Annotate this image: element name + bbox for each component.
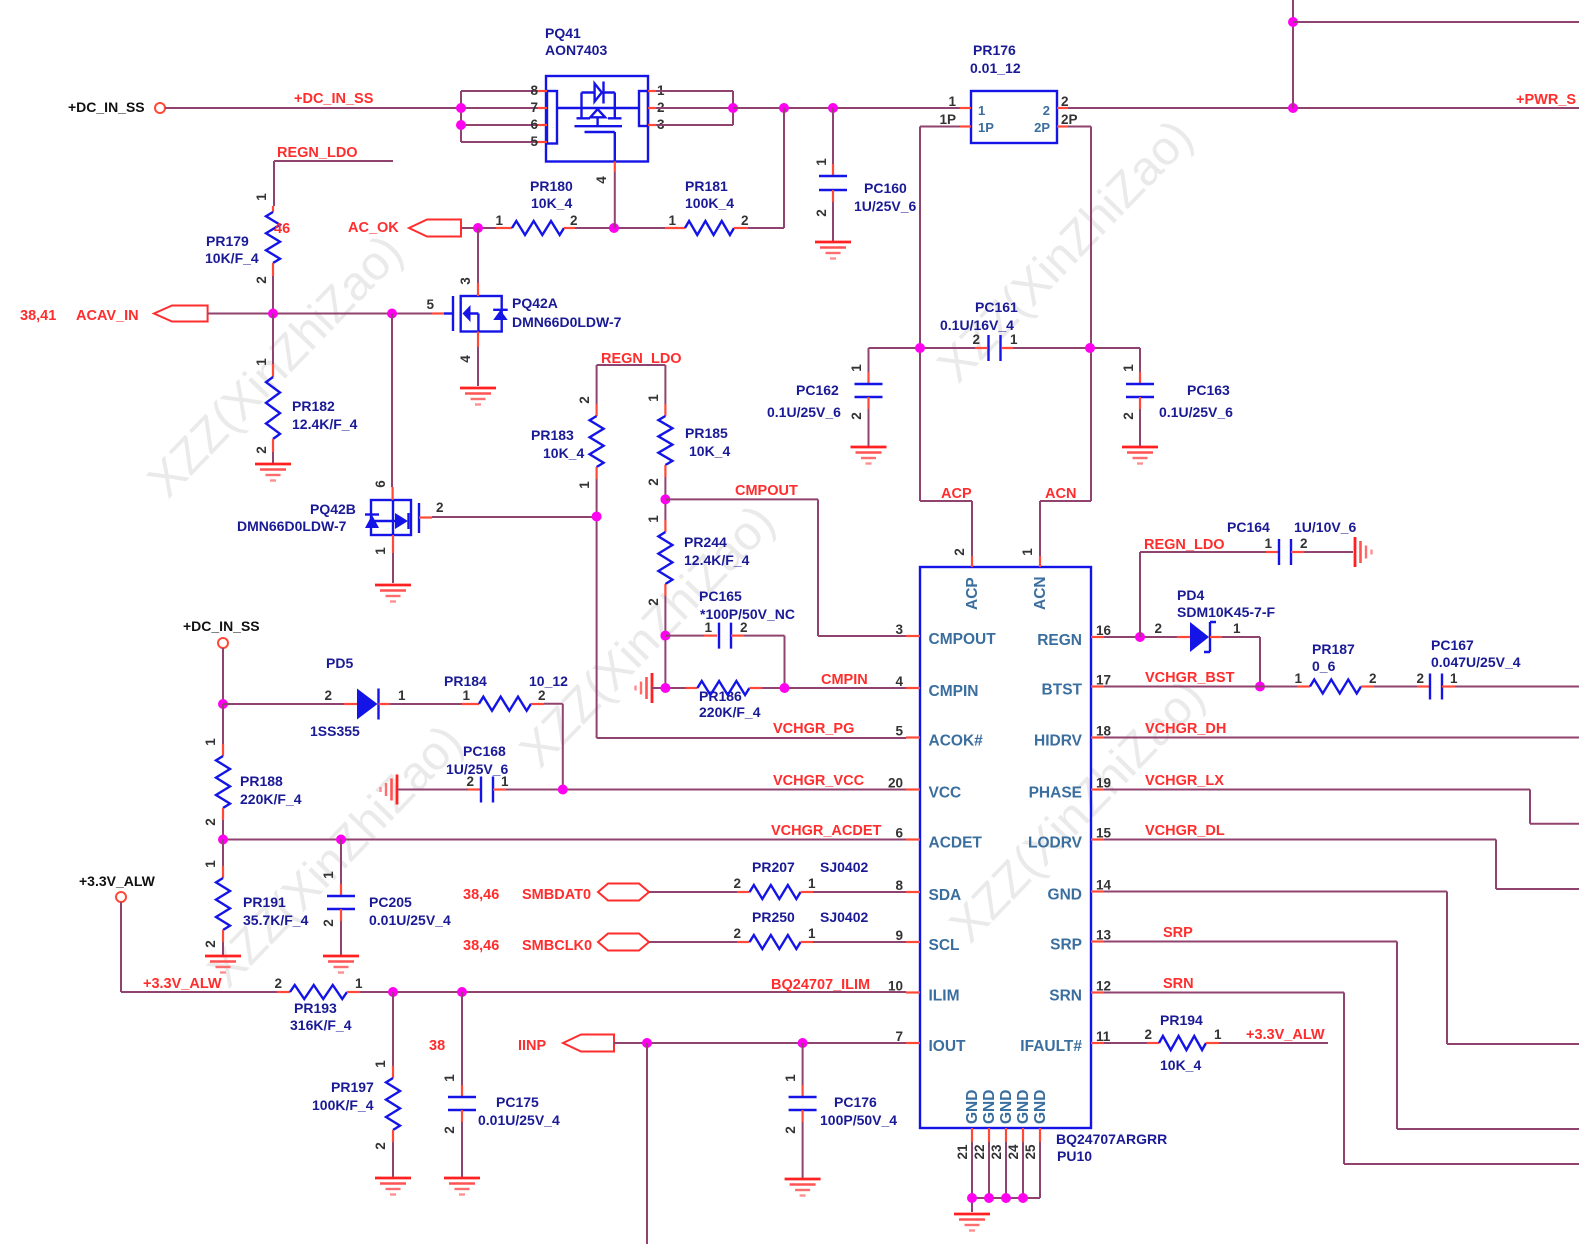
capacitor PC167 labels [1431, 637, 1521, 670]
svg-text:PR184: PR184 [444, 673, 487, 689]
wire VCHGR_DH row [1104, 721, 1579, 738]
wire DC_IN drop [222, 648, 224, 704]
junction PQ42B PR183 [592, 512, 602, 522]
junction PC165 left [660, 631, 670, 641]
wire PQ41 pin4 drop [614, 172, 616, 228]
svg-text:PR250: PR250 [752, 909, 795, 925]
svg-text:ACOK#: ACOK# [929, 733, 984, 750]
svg-text:CMPIN: CMPIN [929, 683, 979, 700]
svg-text:PC167: PC167 [1431, 637, 1474, 653]
svg-text:2: 2 [814, 209, 829, 217]
svg-text:7: 7 [895, 1029, 903, 1044]
pin 6 PQ41 [530, 117, 547, 132]
svg-text:1U/10V_6: 1U/10V_6 [1294, 519, 1356, 535]
svg-text:10K_4: 10K_4 [531, 195, 572, 211]
junction PD5 row [218, 699, 228, 709]
svg-text:6: 6 [895, 826, 903, 841]
ground PC160 [815, 242, 851, 259]
pin 7 PQ41 [530, 100, 547, 115]
svg-text:2: 2 [1144, 1027, 1152, 1042]
resistor PR194 labels [1160, 1012, 1203, 1073]
junction ACP PC161 [915, 343, 925, 353]
ground PC162 [851, 447, 887, 464]
svg-text:PD4: PD4 [1177, 587, 1204, 603]
pin 4 PQ42A [458, 332, 478, 363]
svg-text:PR197: PR197 [331, 1079, 374, 1095]
capacitor PC163 labels [1159, 382, 1233, 420]
ground PR191 [205, 956, 241, 973]
svg-text:1: 1 [1294, 671, 1302, 686]
wire 1P to ACP [920, 127, 972, 557]
wire SRP net [1104, 925, 1579, 1129]
svg-text:19: 19 [1096, 776, 1111, 791]
wire IINP drop [646, 1043, 648, 1244]
resistor PR181 labels [685, 178, 734, 211]
svg-text:PR194: PR194 [1160, 1012, 1203, 1028]
wire SCL row [649, 941, 906, 943]
pin 18 HIDRV PU10 [1034, 724, 1111, 750]
wire VCHGR_DL row [1104, 823, 1579, 889]
ground PC168 [381, 775, 398, 805]
svg-text:1: 1 [948, 94, 956, 109]
svg-text:8: 8 [530, 83, 538, 98]
node +3.3V_ALW terminal [79, 873, 156, 902]
wire ACAV_IN row [208, 313, 443, 315]
pin 1 PR176 [948, 94, 971, 109]
svg-text:BQ24707_ILIM: BQ24707_ILIM [771, 977, 870, 993]
svg-text:1: 1 [495, 213, 503, 228]
svg-text:0.01U/25V_4: 0.01U/25V_4 [478, 1112, 560, 1128]
svg-text:PQ41: PQ41 [545, 25, 581, 41]
svg-text:GND: GND [1015, 1090, 1032, 1124]
svg-text:PC163: PC163 [1187, 382, 1230, 398]
svg-text:VCHGR_LX: VCHGR_LX [1145, 773, 1224, 789]
wire PD5 row [223, 703, 462, 705]
svg-text:PC162: PC162 [796, 382, 839, 398]
port SMBCLK0 [463, 934, 649, 955]
svg-text:+DC_IN_SS: +DC_IN_SS [183, 618, 260, 634]
pin 14 GND PU10 [1048, 878, 1112, 904]
resistor PR207 labels [752, 859, 868, 875]
resistor PR193 labels [290, 1000, 352, 1033]
svg-text:0_6: 0_6 [1312, 658, 1336, 674]
junction ILIM PC175 [457, 987, 467, 997]
svg-text:VCC: VCC [929, 785, 962, 802]
resistor PR191 [203, 840, 230, 957]
transistor PQ41 body [546, 76, 648, 162]
svg-text:+DC_IN_SS: +DC_IN_SS [68, 99, 145, 115]
svg-text:2: 2 [570, 213, 578, 228]
svg-text:1: 1 [442, 1074, 457, 1082]
svg-text:0.01U/25V_4: 0.01U/25V_4 [369, 912, 451, 928]
node +DC_IN_SS 2 terminal [183, 618, 260, 648]
svg-text:PR176: PR176 [973, 42, 1016, 58]
svg-text:PR193: PR193 [294, 1000, 337, 1016]
pin 2 ACP PU10 [952, 548, 981, 610]
pin 2 PR176 [1057, 94, 1069, 109]
resistor PR180 labels [530, 178, 573, 211]
svg-text:PQ42B: PQ42B [310, 501, 356, 517]
svg-text:1: 1 [978, 103, 985, 118]
svg-text:100K_4: 100K_4 [685, 195, 734, 211]
junction ACN PC161 [1085, 343, 1095, 353]
svg-text:ACDET: ACDET [929, 835, 983, 852]
capacitor PC162 [849, 348, 883, 447]
resistor PR188 labels [240, 773, 302, 807]
svg-text:2: 2 [1369, 671, 1377, 686]
resistor PR185 labels [685, 425, 730, 459]
svg-text:IOUT: IOUT [929, 1038, 967, 1055]
capacitor PC165 labels [699, 588, 795, 622]
svg-text:1U/25V_6: 1U/25V_6 [854, 198, 916, 214]
junction PC176 [798, 1038, 808, 1048]
wire GND net [1104, 892, 1579, 1045]
resistor PR244 labels [684, 534, 750, 568]
resistor PR191 labels [243, 894, 309, 928]
wire CMPIN row [652, 672, 906, 688]
svg-text:2: 2 [733, 926, 741, 941]
svg-text:0.1U/25V_6: 0.1U/25V_6 [1159, 404, 1233, 420]
svg-text:1: 1 [668, 213, 676, 228]
svg-text:BTST: BTST [1042, 682, 1083, 699]
resistor PR179 [254, 193, 290, 314]
resistor PR179 labels [205, 233, 259, 266]
svg-text:2: 2 [577, 396, 592, 404]
svg-text:PHASE: PHASE [1029, 785, 1082, 802]
node ACP label [941, 486, 972, 502]
pin 24 GND PU10 [1006, 1090, 1032, 1198]
resistor PR183 [577, 396, 604, 489]
svg-text:9: 9 [895, 928, 903, 943]
svg-text:10_12: 10_12 [529, 673, 568, 689]
svg-text:1: 1 [646, 515, 661, 523]
svg-text:2P: 2P [1034, 120, 1050, 135]
svg-text:2: 2 [1061, 94, 1069, 109]
pin 2 PQ41 [648, 100, 665, 115]
svg-text:IFAULT#: IFAULT# [1020, 1038, 1082, 1055]
svg-text:3: 3 [895, 622, 903, 637]
transistor PQ42B body [365, 500, 419, 535]
svg-text:VCHGR_BST: VCHGR_BST [1145, 670, 1235, 686]
junction CMPIN left [660, 683, 670, 693]
pin 3 PQ42A [458, 277, 478, 296]
svg-text:14: 14 [1096, 878, 1112, 893]
svg-text:PQ42A: PQ42A [512, 295, 558, 311]
svg-text:ACP: ACP [964, 577, 981, 610]
wire top right branch [1293, 21, 1579, 23]
svg-text:23: 23 [989, 1144, 1004, 1160]
wire PQ41 right bus [656, 91, 733, 125]
svg-text:2: 2 [849, 412, 864, 420]
svg-text:2: 2 [538, 688, 546, 703]
svg-text:ILIM: ILIM [929, 988, 960, 1005]
svg-text:7: 7 [530, 100, 538, 115]
svg-text:REGN_LDO: REGN_LDO [277, 145, 358, 161]
svg-text:ACN: ACN [1045, 486, 1076, 502]
junction GND pin [967, 1193, 977, 1203]
svg-text:PR180: PR180 [530, 178, 573, 194]
svg-text:SDM10K45-7-F: SDM10K45-7-F [1177, 604, 1275, 620]
svg-text:38: 38 [429, 1038, 445, 1054]
node REGN_LDO stub [274, 145, 393, 206]
resistor PR197 labels [312, 1079, 374, 1113]
svg-text:18: 18 [1096, 724, 1112, 739]
pin 3 PQ41 [648, 117, 665, 132]
svg-text:PR207: PR207 [752, 859, 795, 875]
svg-text:GND: GND [1032, 1090, 1049, 1124]
svg-text:+DC_IN_SS: +DC_IN_SS [294, 91, 374, 107]
svg-text:1: 1 [462, 688, 470, 703]
wire main to PR176 [733, 107, 961, 109]
pin 8 PQ41 [530, 83, 547, 98]
svg-text:220K/F_4: 220K/F_4 [699, 704, 761, 720]
svg-text:VCHGR_ACDET: VCHGR_ACDET [771, 823, 882, 839]
svg-text:ACAV_IN: ACAV_IN [76, 308, 139, 324]
transistor PQ42A labels [512, 295, 622, 330]
svg-text:2: 2 [324, 688, 332, 703]
resistor PR183 labels [531, 427, 584, 461]
resistor PR180 [495, 213, 577, 235]
svg-text:46: 46 [274, 221, 290, 237]
capacitor PC160 [814, 108, 847, 242]
svg-text:2: 2 [203, 940, 218, 948]
wire PR183 to VCHGR_PG [597, 479, 906, 738]
svg-text:316K/F_4: 316K/F_4 [290, 1017, 352, 1033]
svg-text:1: 1 [254, 358, 269, 366]
ground PC205 [323, 956, 359, 973]
svg-text:SDA: SDA [929, 887, 962, 904]
svg-text:100K/F_4: 100K/F_4 [312, 1097, 374, 1113]
junction PR180 PQ41 gate [609, 223, 619, 233]
svg-text:GND: GND [1048, 887, 1082, 904]
junction ACDET PC205 [336, 835, 346, 845]
svg-text:10K/F_4: 10K/F_4 [205, 250, 259, 266]
svg-text:2: 2 [436, 500, 444, 515]
svg-text:11: 11 [1096, 1029, 1111, 1044]
svg-text:PC205: PC205 [369, 894, 412, 910]
svg-text:PC175: PC175 [496, 1094, 539, 1110]
pin 3 CMPOUT PU10 [895, 622, 996, 648]
svg-text:2: 2 [740, 620, 748, 635]
pin 1 ACN PU10 [1020, 548, 1049, 610]
svg-text:22: 22 [972, 1144, 987, 1159]
pin 16 REGN PU10 [1037, 623, 1111, 649]
svg-text:2: 2 [373, 1142, 388, 1150]
wire PR181 riser [783, 108, 785, 228]
svg-text:0.1U/16V_4: 0.1U/16V_4 [940, 317, 1014, 333]
svg-text:2: 2 [274, 976, 282, 991]
svg-text:1: 1 [808, 876, 816, 891]
pin 5 ACOK# PU10 [895, 724, 983, 750]
diode PD5 labels [310, 655, 360, 739]
svg-text:CMPOUT: CMPOUT [929, 631, 997, 648]
wire PR185 bottom [664, 477, 666, 520]
svg-text:2: 2 [254, 446, 269, 454]
svg-text:38,41: 38,41 [20, 308, 56, 324]
wire VCHGR_LX row [1104, 773, 1579, 824]
junction ACAV PQ42B [387, 309, 397, 319]
svg-text:PR187: PR187 [1312, 641, 1355, 657]
svg-text:PC161: PC161 [975, 299, 1018, 315]
svg-text:25: 25 [1023, 1144, 1038, 1160]
ground CMPIN [636, 673, 653, 703]
svg-text:PR183: PR183 [531, 427, 574, 443]
node REGN_LDO 2 label [601, 351, 682, 367]
svg-text:8: 8 [895, 878, 903, 893]
svg-text:15: 15 [1096, 826, 1112, 841]
port SMBDAT0 [463, 884, 649, 904]
svg-text:+3.3V_ALW: +3.3V_ALW [143, 976, 222, 992]
svg-text:2: 2 [733, 876, 741, 891]
port IINP [429, 1035, 614, 1055]
svg-text:1: 1 [203, 738, 218, 746]
svg-text:1: 1 [646, 394, 661, 402]
wire IFAULT row [1104, 1042, 1147, 1044]
resistor PR176 [971, 91, 1057, 143]
pin 21 GND PU10 [955, 1090, 981, 1198]
svg-text:SRP: SRP [1050, 937, 1082, 954]
junction GND pin [1018, 1193, 1028, 1203]
svg-text:1: 1 [814, 158, 829, 166]
junction PQ41 out [728, 103, 738, 113]
wire PQ42B gate [432, 516, 597, 518]
svg-text:1: 1 [704, 620, 712, 635]
op-amp U-PU10 BQ24707 body [920, 567, 1167, 1164]
diode PD5 [324, 688, 406, 720]
capacitor PC164 [1264, 536, 1353, 565]
svg-text:1P: 1P [939, 112, 956, 127]
ground PQ42A [460, 388, 496, 405]
svg-text:3: 3 [458, 277, 473, 285]
svg-text:1: 1 [849, 364, 864, 372]
svg-text:12.4K/F_4: 12.4K/F_4 [684, 552, 750, 568]
wire +DC_IN_SS main [165, 91, 540, 108]
svg-text:IINP: IINP [518, 1038, 547, 1054]
svg-text:HIDRV: HIDRV [1034, 733, 1083, 750]
svg-text:12.4K/F_4: 12.4K/F_4 [292, 416, 358, 432]
pin 20 VCC PU10 [888, 776, 961, 802]
svg-text:1: 1 [808, 926, 816, 941]
capacitor PC164 labels [1227, 519, 1356, 535]
svg-text:SRP: SRP [1163, 925, 1193, 941]
svg-text:SRN: SRN [1163, 976, 1194, 992]
ground PU10 [954, 1214, 990, 1231]
resistor PR197 [373, 992, 400, 1178]
resistor PR176 labels [970, 42, 1021, 76]
junction GND pin [1001, 1193, 1011, 1203]
wire PR244 bottom [664, 596, 666, 688]
svg-text:35.7K/F_4: 35.7K/F_4 [243, 912, 309, 928]
pin 13 SRP PU10 [1050, 928, 1111, 954]
resistor PR181 [665, 213, 749, 235]
svg-text:AON7403: AON7403 [545, 42, 607, 58]
svg-text:VCHGR_VCC: VCHGR_VCC [773, 773, 865, 789]
junction PC160 branch [828, 103, 838, 113]
svg-text:CMPOUT: CMPOUT [735, 483, 798, 499]
pin 4 PQ41 [594, 161, 615, 183]
pin 22 GND PU10 [972, 1090, 998, 1198]
svg-text:2: 2 [442, 1126, 457, 1134]
resistor PR194 [1144, 1027, 1222, 1050]
wire CMPOUT [665, 483, 906, 636]
wire PR184 to VCC [544, 704, 563, 790]
svg-text:2P: 2P [1061, 112, 1078, 127]
svg-text:5: 5 [895, 724, 903, 739]
capacitor PC167 [1374, 671, 1458, 700]
svg-text:1: 1 [1010, 332, 1018, 347]
svg-text:VCHGR_DL: VCHGR_DL [1145, 823, 1225, 839]
svg-text:1: 1 [783, 1074, 798, 1082]
svg-text:SMBDAT0: SMBDAT0 [522, 887, 591, 903]
capacitor PC176 [783, 1043, 817, 1179]
svg-text:PR191: PR191 [243, 894, 286, 910]
svg-text:GND: GND [998, 1090, 1015, 1124]
wire PD4 to BTST [1222, 637, 1260, 687]
junction +DC_IN_SS pin7 [456, 103, 466, 113]
resistor PR182 [254, 314, 280, 465]
svg-text:24: 24 [1006, 1144, 1021, 1160]
svg-text:SJ0402: SJ0402 [820, 859, 868, 875]
pin 19 PHASE PU10 [1029, 776, 1111, 802]
ground PR197 [375, 1178, 411, 1195]
svg-text:0.047U/25V_4: 0.047U/25V_4 [1431, 654, 1521, 670]
junction REGN riser [1135, 632, 1145, 642]
svg-text:AC_OK: AC_OK [348, 220, 399, 236]
wire PQ42A drain [477, 228, 479, 283]
wire +3.3V_ALW [121, 902, 277, 992]
pin 12 SRN PU10 [1049, 979, 1111, 1005]
svg-text:+PWR_S: +PWR_S [1516, 92, 1576, 108]
capacitor PC161 [972, 332, 1018, 361]
pin 5 PQ42A [426, 297, 444, 314]
svg-text:PR185: PR185 [685, 425, 728, 441]
ground PR182 [255, 464, 291, 481]
svg-text:1: 1 [1233, 621, 1241, 636]
svg-text:6: 6 [373, 480, 388, 488]
svg-text:PU10: PU10 [1057, 1148, 1092, 1164]
pin 1P PR176 [939, 112, 971, 127]
svg-text:SCL: SCL [929, 937, 960, 954]
wire PQ42A source [477, 347, 479, 386]
svg-text:10: 10 [888, 979, 903, 994]
svg-text:+3.3V_ALW: +3.3V_ALW [79, 873, 156, 889]
svg-text:GND: GND [964, 1090, 981, 1124]
resistor PR187 labels [1312, 641, 1355, 674]
svg-text:5: 5 [426, 297, 434, 312]
transistor PQ42B labels [237, 501, 356, 534]
capacitor PC162 labels [767, 382, 841, 420]
svg-text:1: 1 [398, 688, 406, 703]
pin 1 PQ41 [648, 83, 665, 98]
capacitor PC165 [665, 620, 784, 688]
capacitor PC176 labels [820, 1094, 897, 1128]
wire PQ42B source [392, 553, 394, 583]
svg-text:17: 17 [1096, 673, 1111, 688]
svg-text:XZZ(XinZhiZao): XZZ(XinZhiZao) [940, 670, 1215, 952]
svg-text:GND: GND [981, 1090, 998, 1124]
svg-text:PD5: PD5 [326, 655, 353, 671]
diode PD4 labels [1177, 587, 1275, 620]
pin 23 GND PU10 [989, 1090, 1015, 1198]
svg-text:1: 1 [1020, 548, 1035, 556]
wire BTST out [1455, 686, 1579, 688]
resistor PR250 labels [752, 909, 868, 925]
junction CMPIN right [780, 683, 790, 693]
svg-text:2: 2 [646, 478, 661, 486]
svg-text:PR244: PR244 [684, 534, 727, 550]
svg-text:20: 20 [888, 776, 903, 791]
pin 15 LODRV PU10 [1028, 826, 1111, 852]
